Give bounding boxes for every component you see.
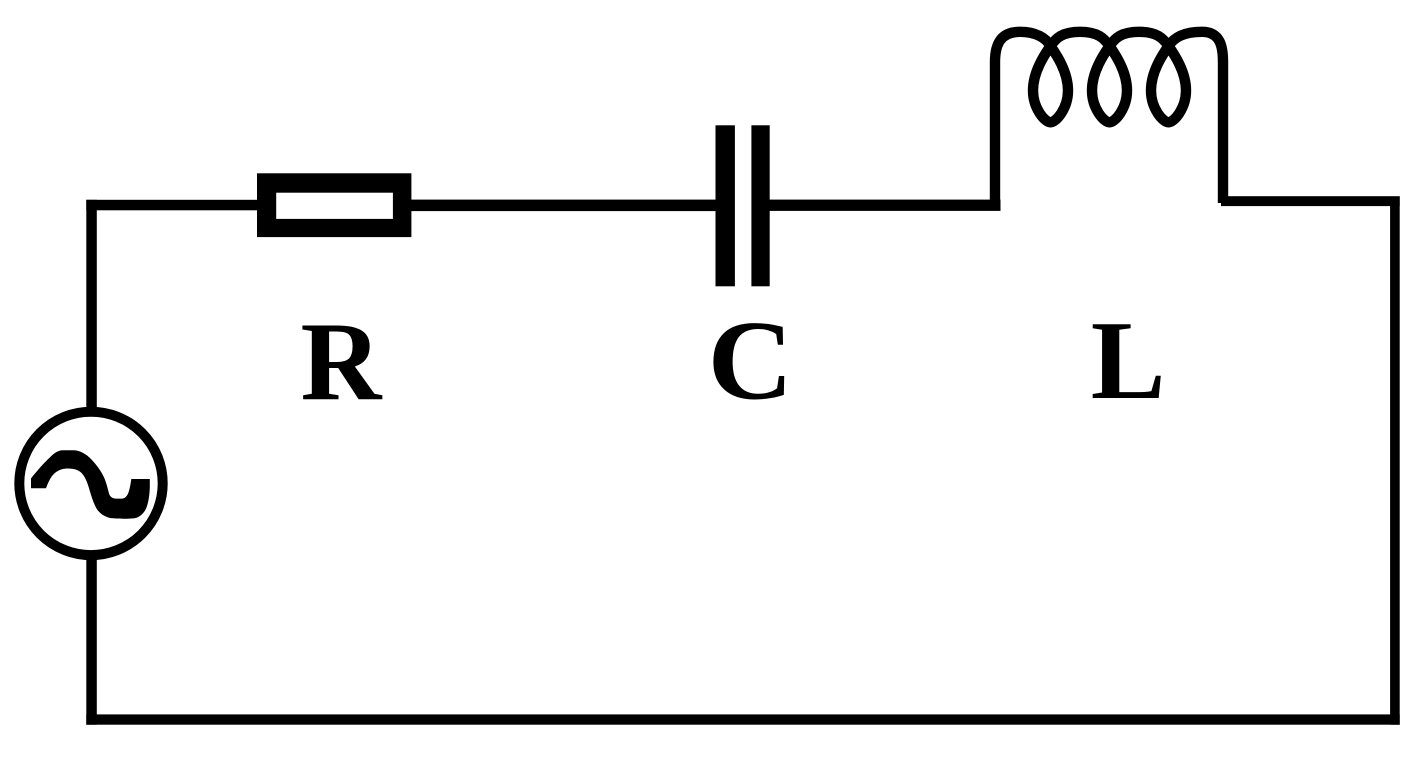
wire: horizontal segment, capacitor C to inductor L <box>770 200 1001 211</box>
AC source (circle outline) <box>19 412 162 555</box>
svg-text:R: R <box>301 300 383 424</box>
wire: horizontal segment, resistor R to capacitor C <box>410 200 716 212</box>
wire: top-right horizontal segment, inductor L to right corner <box>1221 196 1400 206</box>
capacitor C left plate <box>716 125 735 286</box>
inductor L (coil with three loops and risers) <box>995 32 1223 207</box>
wire: left vertical segment, AC source bottom terminal to bottom wire <box>86 554 97 725</box>
wire: top-left horizontal segment, source corner to resistor R <box>86 200 257 211</box>
AC source sine-wave symbol <box>31 450 150 519</box>
wire: left vertical segment, top corner down to AC source top terminal <box>86 200 97 413</box>
resistor R (rectangular box body) <box>257 173 411 237</box>
capacitor C right plate <box>751 125 769 286</box>
wire: bottom horizontal return segment <box>86 714 1399 724</box>
wire: right vertical segment <box>1390 197 1400 725</box>
svg-text:L: L <box>1091 299 1166 423</box>
svg-text:C: C <box>708 298 794 423</box>
